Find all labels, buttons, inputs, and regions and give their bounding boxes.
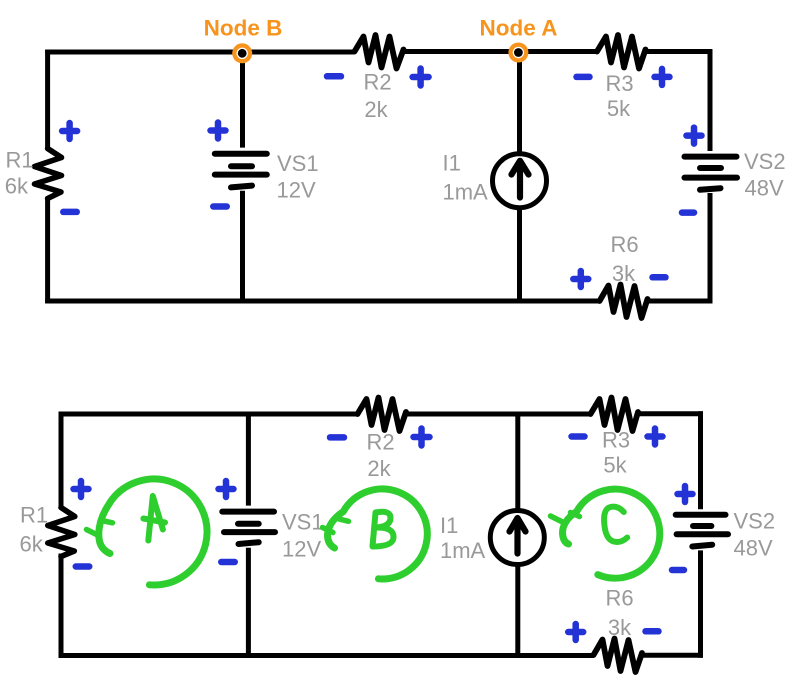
mesh loop B letter bbox=[373, 512, 394, 547]
svg-text:6k: 6k bbox=[20, 532, 44, 557]
svg-text:R2: R2 bbox=[363, 70, 391, 95]
svg-text:R3: R3 bbox=[605, 71, 633, 96]
R1 plus mark bbox=[74, 481, 89, 497]
node A dot bbox=[508, 43, 528, 63]
svg-text:I1: I1 bbox=[440, 513, 458, 538]
wire: VS1 branch lower bbox=[246, 548, 251, 656]
svg-text:VS1: VS1 bbox=[277, 151, 319, 176]
mesh loop A arc with arrow bbox=[87, 479, 207, 585]
svg-text:VS1: VS1 bbox=[282, 510, 324, 535]
mesh loop A letter bbox=[143, 496, 165, 541]
wire: left side below R1 bbox=[45, 199, 50, 304]
svg-text:3k: 3k bbox=[608, 615, 632, 640]
R1 minus mark bbox=[63, 209, 77, 216]
R3 plus mark bbox=[655, 69, 670, 85]
svg-text:R3: R3 bbox=[602, 428, 630, 453]
battery VS2 (48V) plates bbox=[685, 157, 738, 190]
svg-text:1mA: 1mA bbox=[443, 180, 489, 205]
wire: I1 branch upper bbox=[515, 414, 520, 511]
wire: top side, left corner to R2 bbox=[59, 412, 358, 417]
wire: VS1 branch battery to bottom wire bbox=[240, 191, 245, 301]
svg-text:VS2: VS2 bbox=[744, 149, 786, 174]
wire: top side, R2 to R3 bbox=[406, 412, 591, 417]
resistor R3 (5k) zigzag bbox=[591, 398, 639, 432]
VS1 minus mark bbox=[221, 559, 235, 566]
resistor R2 (2k) zigzag bbox=[355, 35, 404, 69]
R3 plus mark bbox=[648, 429, 663, 445]
current source I1 arrow bbox=[512, 161, 529, 198]
svg-text:R2: R2 bbox=[366, 430, 394, 455]
wire: I1 branch lower bbox=[515, 564, 520, 656]
resistor R1 (6k) zigzag bbox=[48, 508, 75, 557]
VS2 minus mark bbox=[682, 209, 694, 216]
resistor R6 (3k) zigzag bbox=[600, 285, 648, 319]
svg-text:Node B: Node B bbox=[204, 16, 283, 41]
current source I1 circle bbox=[490, 511, 544, 565]
wire: left side above R1 bbox=[45, 50, 50, 149]
svg-text:R1: R1 bbox=[6, 148, 34, 173]
wire: bottom side, R6 to bottom-right corner bbox=[642, 653, 704, 658]
VS1 minus mark bbox=[213, 203, 227, 210]
svg-text:2k: 2k bbox=[364, 97, 388, 122]
resistor R2 (2k) zigzag bbox=[358, 398, 407, 432]
R1 plus mark bbox=[62, 123, 77, 139]
svg-text:R6: R6 bbox=[605, 586, 633, 611]
wire: I1 branch from node A down to source bbox=[517, 52, 522, 153]
R6 plus mark bbox=[568, 624, 583, 640]
wire: top side, R2 to R3 bbox=[404, 49, 598, 54]
wire: bottom side, left corner to R6 bbox=[45, 299, 599, 304]
battery VS1 (12V) plates bbox=[215, 154, 267, 188]
R2 minus mark bbox=[327, 73, 341, 80]
R2 plus mark bbox=[414, 429, 430, 446]
resistor R6 (3k) zigzag bbox=[594, 639, 643, 673]
wire: VS1 branch from node B down to battery bbox=[240, 52, 245, 148]
battery VS2 (48V) plates bbox=[676, 515, 728, 547]
svg-text:5k: 5k bbox=[607, 96, 631, 121]
R1 minus mark bbox=[76, 563, 90, 570]
VS1 plus mark bbox=[211, 123, 226, 139]
wire: bottom side, R6 to bottom-right corner bbox=[647, 299, 712, 304]
mesh loop B arc with arrow bbox=[323, 489, 428, 579]
svg-text:2k: 2k bbox=[367, 456, 391, 481]
wire: top side, R3 to top-right corner bbox=[645, 49, 713, 54]
R3 minus mark bbox=[572, 433, 585, 440]
wire: left side above R1 bbox=[59, 412, 64, 509]
svg-text:48V: 48V bbox=[734, 536, 773, 561]
R2 plus mark bbox=[413, 69, 429, 86]
svg-text:12V: 12V bbox=[277, 178, 316, 203]
wire: right side below VS2 bbox=[698, 550, 703, 657]
wire: I1 branch source to bottom wire bbox=[517, 209, 522, 302]
wire: left side below R1 bbox=[59, 554, 64, 659]
svg-text:VS2: VS2 bbox=[734, 509, 776, 534]
R6 plus mark bbox=[573, 271, 588, 287]
svg-text:48V: 48V bbox=[745, 176, 784, 201]
svg-text:1mA: 1mA bbox=[440, 538, 486, 563]
VS2 plus mark bbox=[687, 128, 702, 144]
wire: right side above VS2 bbox=[708, 50, 713, 151]
R2 minus mark bbox=[330, 434, 344, 441]
mesh loop C letter bbox=[604, 507, 627, 542]
wire: right side below VS2 bbox=[708, 193, 713, 303]
wire: VS1 branch upper bbox=[246, 414, 251, 506]
resistor R3 (5k) zigzag bbox=[597, 35, 646, 69]
svg-text:Node A: Node A bbox=[480, 16, 558, 41]
R6 minus mark bbox=[646, 628, 659, 635]
R6 minus mark bbox=[653, 274, 666, 281]
wire: top side, R3 to top-right corner bbox=[638, 411, 704, 416]
wire: top side, left corner to R2 bbox=[45, 50, 354, 55]
wire: bottom side, left corner to R6 bbox=[59, 653, 595, 658]
resistor R1 (6k) zigzag bbox=[35, 149, 62, 199]
svg-text:5k: 5k bbox=[603, 453, 627, 478]
node B dot bbox=[232, 43, 252, 63]
wire: right side above VS2 bbox=[698, 411, 703, 509]
R3 minus mark bbox=[577, 74, 590, 81]
svg-text:R6: R6 bbox=[610, 232, 638, 257]
current source I1 arrow bbox=[510, 518, 526, 554]
svg-text:3k: 3k bbox=[612, 261, 636, 286]
svg-text:R1: R1 bbox=[20, 503, 48, 528]
svg-text:6k: 6k bbox=[5, 174, 29, 199]
mesh loop C arc with arrow bbox=[551, 489, 660, 578]
VS1 plus mark bbox=[219, 481, 234, 497]
VS2 minus mark bbox=[672, 567, 684, 574]
svg-text:12V: 12V bbox=[282, 537, 321, 562]
battery VS1 (12V) plates bbox=[222, 512, 275, 544]
svg-text:I1: I1 bbox=[443, 151, 461, 176]
VS2 plus mark bbox=[678, 486, 693, 502]
current source I1 circle bbox=[493, 154, 547, 208]
